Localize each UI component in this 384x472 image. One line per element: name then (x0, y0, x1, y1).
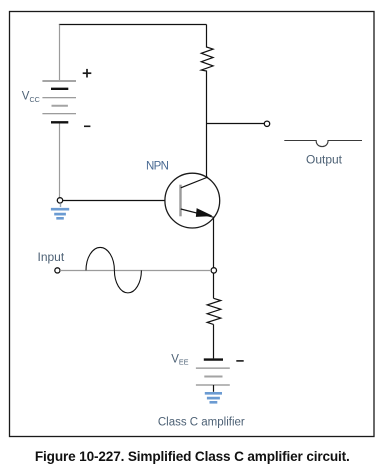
transistor Q1 emitter stroke (181, 209, 214, 217)
wire: gray vertical from top rail down to Vcc + plate (59, 25, 61, 81)
transistor Q1 emitter arrowhead (196, 209, 211, 217)
node: emitter/input junction (open circle) (211, 268, 216, 273)
wire: base wire from node to transistor base (63, 200, 180, 202)
wire: input line (gray) (60, 270, 211, 272)
ground (below Vcc node) (51, 203, 69, 218)
wire: node down to resistor R2 (213, 273, 215, 298)
wire: gray vertical from Vcc - plate down to ground node (59, 124, 61, 198)
transistor Q1 base bar (179, 185, 181, 217)
transistor Q1 collector stroke (181, 177, 208, 188)
wire: stub from Vee to ground (213, 385, 215, 392)
node: output terminal (open circle) (264, 121, 269, 126)
svg-text:Class C amplifier: Class C amplifier (158, 417, 245, 429)
resistor R1 (collector load) (201, 25, 213, 178)
svg-text:Input: Input (38, 250, 65, 264)
input sine wave (86, 247, 141, 292)
svg-text:Output: Output (306, 153, 343, 167)
resistor R2 (emitter) (207, 298, 221, 324)
wire: R2 down to Vee battery (213, 324, 215, 358)
wire: top rail from Vcc+ to resistor R1 (59, 24, 207, 26)
svg-text:NPN: NPN (146, 160, 169, 172)
ground (below Vee) (205, 393, 222, 402)
wire: output tap from collector (207, 123, 265, 125)
input terminal (open circle) (55, 268, 60, 273)
svg-text:VEE: VEE (171, 354, 188, 367)
plus sign at Vcc (83, 69, 92, 78)
minus sign at Vcc (84, 125, 90, 127)
wire: emitter down to input node (213, 218, 215, 268)
transistor Q1 circle (165, 173, 220, 228)
svg-text:Figure 10-227. Simplified Clas: Figure 10-227. Simplified Class C amplif… (35, 449, 350, 464)
minus sign at Vee (236, 360, 243, 362)
output waveform symbol (line with notch) (284, 141, 362, 147)
svg-text:VCC: VCC (22, 91, 40, 104)
battery Vee (196, 360, 230, 385)
battery Vcc (42, 81, 76, 122)
node: junction at base/ground (open circle) (57, 198, 62, 203)
